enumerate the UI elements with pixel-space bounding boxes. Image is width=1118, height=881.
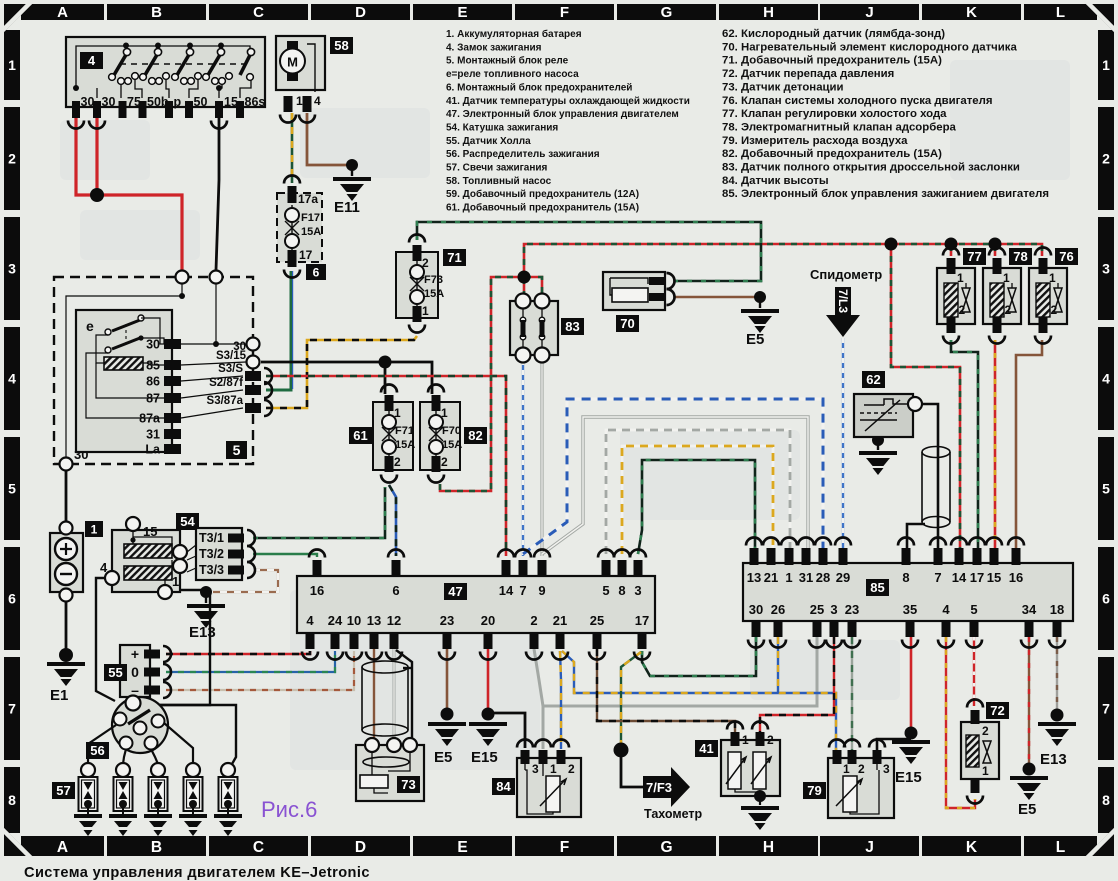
svg-text:J: J bbox=[865, 4, 873, 21]
svg-text:83: 83 bbox=[565, 319, 579, 334]
svg-text:55: 55 bbox=[108, 665, 122, 680]
wire brown fuel pump to E11 bbox=[307, 113, 348, 165]
svg-text:15A: 15A bbox=[442, 439, 462, 451]
svg-text:56: 56 bbox=[90, 743, 104, 758]
svg-text:55. Датчик Холла: 55. Датчик Холла bbox=[446, 136, 531, 147]
svg-text:La: La bbox=[145, 443, 161, 457]
speedometer arrow 7/L3 bbox=[810, 267, 882, 337]
svg-text:8: 8 bbox=[902, 570, 909, 585]
svg-text:41. Датчик температуры охлажда: 41. Датчик температуры охлаждающей жидко… bbox=[446, 96, 690, 107]
svg-text:61: 61 bbox=[353, 428, 367, 443]
svg-text:3: 3 bbox=[883, 762, 890, 776]
svg-text:Рис.6: Рис.6 bbox=[261, 797, 317, 822]
battery 1 bbox=[50, 521, 103, 602]
coolant temp sensor 41 bbox=[695, 722, 780, 831]
svg-text:3: 3 bbox=[830, 602, 837, 617]
wire red battery feed 30 bbox=[76, 113, 94, 195]
svg-text:82: 82 bbox=[468, 428, 482, 443]
wire black shield to 85 pin8 bbox=[907, 524, 925, 551]
fuse 82 (F70) bbox=[420, 385, 487, 483]
svg-text:L: L bbox=[1056, 839, 1065, 856]
bridge yellow dashed 47 pin8 to 85 pin21 bbox=[622, 446, 773, 554]
svg-text:18: 18 bbox=[1050, 602, 1064, 617]
wire battery to relay 30 bbox=[65, 471, 68, 527]
svg-text:E: E bbox=[457, 4, 467, 21]
svg-text:85. Электронный блок управлени: 85. Электронный блок управления зажигани… bbox=[722, 188, 1049, 200]
wire green/blue fuse6 to S2/87f bbox=[266, 271, 291, 390]
svg-text:6: 6 bbox=[313, 265, 320, 279]
svg-text:85: 85 bbox=[146, 359, 160, 373]
wire blue/yellow 85 pin26 to 79 pin1 bbox=[562, 651, 836, 750]
svg-text:4: 4 bbox=[942, 602, 950, 617]
fuel pump 58 bbox=[276, 36, 353, 123]
svg-text:S3/15: S3/15 bbox=[216, 350, 247, 362]
valve 76 bbox=[1029, 248, 1078, 344]
wire red 47 pin20 to E15 bbox=[487, 649, 490, 709]
svg-text:2: 2 bbox=[767, 733, 774, 747]
svg-text:17: 17 bbox=[970, 570, 984, 585]
svg-text:24: 24 bbox=[328, 613, 343, 628]
svg-text:2: 2 bbox=[530, 613, 537, 628]
svg-text:17a: 17a bbox=[298, 192, 318, 206]
svg-text:4: 4 bbox=[314, 94, 321, 108]
svg-text:3: 3 bbox=[532, 762, 539, 776]
svg-text:15: 15 bbox=[143, 524, 157, 539]
svg-text:62: 62 bbox=[866, 372, 880, 387]
hall sender 55 bbox=[104, 645, 171, 698]
lambda shield cylinder bbox=[922, 447, 950, 528]
svg-text:72: 72 bbox=[990, 703, 1004, 718]
ground E5 top bbox=[754, 291, 766, 303]
svg-text:28: 28 bbox=[816, 570, 830, 585]
svg-text:71: 71 bbox=[447, 250, 461, 265]
svg-text:58. Топливный насос: 58. Топливный насос bbox=[446, 176, 552, 187]
svg-text:1: 1 bbox=[1102, 57, 1110, 73]
svg-text:4. Замок зажигания: 4. Замок зажигания bbox=[446, 42, 542, 53]
svg-text:S2/87f: S2/87f bbox=[209, 377, 243, 389]
svg-text:2: 2 bbox=[441, 455, 448, 469]
wire red/yellow 85 pin4 to 72 pin1 bbox=[946, 637, 975, 808]
svg-text:15A: 15A bbox=[395, 439, 415, 451]
svg-text:8: 8 bbox=[1102, 792, 1110, 808]
svg-text:79: 79 bbox=[807, 783, 821, 798]
svg-text:F70: F70 bbox=[442, 425, 461, 437]
svg-text:E13: E13 bbox=[189, 624, 216, 641]
wire red/green fuse 82 to bus and valves bbox=[440, 277, 524, 491]
svg-text:p: p bbox=[174, 95, 182, 109]
ignition switch 4 bbox=[66, 37, 265, 129]
wire black ign 15 to relay block bbox=[216, 117, 219, 270]
svg-text:54. Катушка зажигания: 54. Катушка зажигания bbox=[446, 122, 558, 133]
svg-text:1. Аккумуляторная батарея: 1. Аккумуляторная батарея bbox=[446, 28, 582, 40]
svg-text:6: 6 bbox=[8, 591, 16, 607]
svg-text:1: 1 bbox=[91, 522, 98, 536]
svg-text:F71: F71 bbox=[395, 425, 414, 437]
svg-text:31: 31 bbox=[799, 570, 813, 585]
svg-text:2: 2 bbox=[8, 151, 16, 167]
wire blue/yellow 47 pin21 to 84 pin2 bbox=[560, 651, 561, 749]
svg-text:A: A bbox=[57, 839, 68, 856]
connector T3 bbox=[187, 528, 255, 580]
svg-text:15A: 15A bbox=[301, 226, 321, 238]
svg-text:73: 73 bbox=[401, 777, 415, 792]
svg-text:86: 86 bbox=[146, 375, 160, 389]
lambda sensor 62 bbox=[854, 371, 922, 437]
svg-text:T3/1: T3/1 bbox=[199, 531, 224, 545]
svg-text:1: 1 bbox=[785, 570, 792, 585]
wire black shield knock bbox=[396, 650, 412, 740]
svg-text:16: 16 bbox=[1009, 570, 1023, 585]
svg-text:6. Монтажный блок предохраните: 6. Монтажный блок предохранителей bbox=[446, 81, 632, 93]
svg-text:41: 41 bbox=[699, 741, 713, 756]
svg-text:E5: E5 bbox=[1018, 801, 1036, 818]
svg-text:13: 13 bbox=[367, 613, 381, 628]
svg-text:H: H bbox=[763, 839, 774, 856]
ECU 85 bbox=[743, 538, 1073, 648]
fuse 61 (F71) bbox=[349, 385, 415, 483]
wire gray 83 to 47 pin9 bbox=[540, 360, 543, 556]
svg-text:30: 30 bbox=[749, 602, 763, 617]
svg-text:1: 1 bbox=[296, 94, 303, 108]
branch to 83 contacts bbox=[523, 277, 526, 298]
svg-text:73. Датчик детонации: 73. Датчик детонации bbox=[722, 81, 844, 93]
ECU 47 bbox=[297, 550, 655, 660]
svg-text:1: 1 bbox=[172, 574, 179, 589]
svg-text:35: 35 bbox=[903, 602, 917, 617]
svg-text:+: + bbox=[131, 646, 139, 662]
svg-text:25: 25 bbox=[810, 602, 824, 617]
svg-text:5. Монтажный блок реле: 5. Монтажный блок реле bbox=[446, 55, 569, 67]
svg-text:2: 2 bbox=[568, 762, 575, 776]
svg-text:70. Нагревательный элемент кис: 70. Нагревательный элемент кислородного … bbox=[722, 41, 1017, 53]
altitude sensor 84 bbox=[492, 740, 581, 818]
wire black to tachometer arrow bbox=[621, 750, 643, 787]
svg-text:16: 16 bbox=[310, 583, 324, 598]
wire red/yellow valve 78 to 85 pin15 bbox=[994, 340, 997, 551]
svg-text:T3/2: T3/2 bbox=[199, 547, 224, 561]
svg-text:S3/87a: S3/87a bbox=[207, 395, 244, 407]
wire yellow/black S3/87a to fuse 71 bbox=[266, 336, 417, 408]
svg-text:2: 2 bbox=[1102, 151, 1110, 167]
wire black/green 85 pin30 to 47 pin17 bbox=[642, 637, 756, 676]
wire brown/red hall- to 47 pin10 bbox=[166, 651, 354, 690]
svg-text:58: 58 bbox=[334, 38, 348, 53]
svg-text:13: 13 bbox=[747, 570, 761, 585]
wire blue/black fuse 61 to 47 pin6 bbox=[389, 485, 396, 556]
wire distributor to plug5 bbox=[141, 705, 236, 764]
svg-text:J: J bbox=[865, 839, 874, 856]
svg-text:3: 3 bbox=[634, 583, 641, 598]
svg-text:e: e bbox=[86, 318, 94, 334]
svg-text:F73: F73 bbox=[424, 274, 443, 286]
svg-text:4: 4 bbox=[88, 53, 96, 68]
svg-text:20: 20 bbox=[481, 613, 495, 628]
svg-text:5: 5 bbox=[602, 583, 609, 598]
wire brown/black 47 pin25 to 41 pin1 bbox=[597, 649, 735, 737]
wire brown/red 85 pin34 to E5 bbox=[1028, 637, 1030, 764]
svg-text:8: 8 bbox=[618, 583, 625, 598]
wire black E15 to 79 pin3 bbox=[877, 739, 911, 750]
knock shield cylinder bbox=[362, 661, 408, 736]
ground E11 bbox=[346, 159, 358, 171]
svg-text:4: 4 bbox=[100, 560, 108, 575]
svg-text:7: 7 bbox=[934, 570, 941, 585]
ignition coil 54 bbox=[100, 513, 199, 599]
wire brown 47 pin13 to knock 73 bbox=[373, 649, 375, 740]
svg-text:7: 7 bbox=[519, 583, 526, 598]
bridge blue dashed 47 pin7 to 85 pin28 bbox=[523, 399, 823, 554]
svg-text:83. Датчик полного открытия др: 83. Датчик полного открытия дроссельной … bbox=[722, 162, 1020, 174]
wire green/gray 85 pin23 to 79 pin2 bbox=[851, 637, 853, 750]
svg-text:6: 6 bbox=[392, 583, 399, 598]
svg-text:78: 78 bbox=[1013, 249, 1027, 264]
svg-text:E5: E5 bbox=[746, 331, 764, 348]
svg-text:4: 4 bbox=[306, 613, 314, 628]
svg-text:7/F3: 7/F3 bbox=[646, 780, 672, 795]
pressure diff sensor 72 bbox=[961, 700, 1009, 804]
svg-text:L: L bbox=[1056, 4, 1065, 21]
svg-text:3: 3 bbox=[1102, 261, 1110, 277]
svg-text:71. Добавочный предохранитель: 71. Добавочный предохранитель (15А) bbox=[722, 55, 942, 67]
svg-text:1: 1 bbox=[742, 733, 749, 747]
svg-text:15: 15 bbox=[224, 95, 238, 109]
wire brown 47 pin23 to E5 bbox=[446, 649, 449, 709]
svg-text:17: 17 bbox=[635, 613, 649, 628]
svg-text:E5: E5 bbox=[434, 749, 452, 766]
svg-text:7/L3: 7/L3 bbox=[836, 289, 850, 313]
svg-text:85: 85 bbox=[870, 580, 884, 595]
wire red/black hall+ to 47 pin4 bbox=[166, 651, 310, 654]
wire coil circle4 to distributor bbox=[96, 578, 115, 701]
svg-text:K: K bbox=[966, 4, 977, 21]
svg-text:79. Измеритель расхода воздуха: 79. Измеритель расхода воздуха bbox=[722, 135, 908, 147]
wire black/green valve 77 to 85 pin17 bbox=[951, 340, 978, 551]
svg-text:2: 2 bbox=[394, 455, 401, 469]
svg-text:2: 2 bbox=[1051, 303, 1058, 317]
svg-text:47. Электронный блок управлени: 47. Электронный блок управления двигател… bbox=[446, 108, 679, 120]
svg-text:1: 1 bbox=[843, 762, 850, 776]
svg-text:7: 7 bbox=[1102, 701, 1110, 717]
svg-text:F17: F17 bbox=[301, 212, 320, 224]
svg-text:25: 25 bbox=[590, 613, 604, 628]
svg-text:4: 4 bbox=[1102, 371, 1110, 387]
svg-text:2: 2 bbox=[1005, 303, 1012, 317]
wire green/yellow fuel pump to fuse 6 bbox=[291, 113, 294, 183]
svg-text:47: 47 bbox=[448, 584, 462, 599]
wire black E15 to 84 pin3 bbox=[490, 713, 525, 748]
svg-text:G: G bbox=[660, 839, 672, 856]
svg-text:77. Клапан регулировки холосто: 77. Клапан регулировки холостого хода bbox=[722, 108, 947, 120]
svg-text:84: 84 bbox=[496, 779, 511, 794]
svg-text:77: 77 bbox=[967, 249, 981, 264]
wire black lambda 62 to 85 pin7 bbox=[920, 404, 938, 551]
svg-text:6: 6 bbox=[1102, 591, 1110, 607]
svg-text:е=реле топливного насоса: е=реле топливного насоса bbox=[446, 69, 579, 80]
wire gray/brown 85 pin18 to E13 bbox=[1056, 637, 1058, 710]
svg-text:7: 7 bbox=[8, 701, 16, 717]
svg-text:30: 30 bbox=[102, 95, 116, 109]
svg-text:26: 26 bbox=[771, 602, 785, 617]
wire red 30 to relay bbox=[95, 113, 98, 195]
svg-text:K: K bbox=[966, 839, 978, 856]
svg-text:21: 21 bbox=[764, 570, 778, 585]
wire green T3/2 to 47 pin16 bbox=[253, 554, 317, 557]
svg-text:1: 1 bbox=[982, 764, 989, 778]
junction bbox=[90, 188, 104, 202]
svg-text:86s: 86s bbox=[245, 95, 266, 109]
svg-text:31: 31 bbox=[146, 428, 160, 442]
svg-text:87a: 87a bbox=[139, 412, 161, 426]
svg-text:59. Добавочный предохранитель: 59. Добавочный предохранитель (12А) bbox=[446, 188, 639, 200]
wire brown valve 76 to 85 pin16 bbox=[1016, 340, 1042, 551]
svg-text:C: C bbox=[253, 4, 264, 21]
svg-text:23: 23 bbox=[845, 602, 859, 617]
wire blue/white speedometer to 85 pin29 bbox=[842, 338, 844, 551]
wire brown heater 70 to E5 bbox=[674, 296, 755, 299]
ground 62 bbox=[872, 434, 884, 446]
svg-text:E13: E13 bbox=[1040, 751, 1067, 768]
svg-text:F: F bbox=[560, 4, 569, 21]
wire red/white 85 pin5 to 72 pin2 bbox=[973, 637, 975, 706]
bus junctions bbox=[891, 244, 960, 551]
wire gray 47 pin12 to knock 73 bbox=[393, 649, 396, 740]
svg-text:2: 2 bbox=[959, 303, 966, 317]
svg-text:5: 5 bbox=[970, 602, 977, 617]
svg-text:17: 17 bbox=[299, 248, 313, 262]
wire green/yellow 47 pin17 to tach junction bbox=[621, 652, 641, 744]
spark plugs 57 bbox=[52, 723, 242, 836]
throttle switch 83 bbox=[510, 294, 584, 363]
wire battery to E1 bbox=[65, 597, 68, 650]
valve 77 bbox=[937, 248, 986, 344]
svg-text:Тахометр: Тахометр bbox=[644, 807, 703, 821]
svg-text:1: 1 bbox=[422, 304, 429, 318]
wire black S3/15 bus to fuses 61 82 bbox=[261, 362, 432, 394]
wire red/black 85 pin3 to 41 pin2 bbox=[760, 637, 834, 737]
valve 78 bbox=[983, 248, 1032, 344]
svg-text:E15: E15 bbox=[471, 749, 498, 766]
bridge gray dashed 47 pin5 to 85 pin1 bbox=[606, 430, 790, 554]
svg-text:T3/3: T3/3 bbox=[199, 563, 224, 577]
svg-text:A: A bbox=[57, 4, 68, 21]
svg-text:61. Добавочный предохранитель: 61. Добавочный предохранитель (15А) bbox=[446, 202, 639, 214]
svg-text:76. Клапан системы холодного п: 76. Клапан системы холодного пуска двига… bbox=[722, 95, 993, 107]
svg-text:Спидометр: Спидометр bbox=[810, 267, 882, 282]
svg-text:2: 2 bbox=[982, 724, 989, 738]
svg-text:57: 57 bbox=[56, 783, 70, 798]
wire coil circle1 to distributor top bbox=[142, 590, 210, 705]
svg-text:F: F bbox=[560, 839, 569, 856]
svg-text:0: 0 bbox=[131, 664, 139, 680]
svg-text:E15: E15 bbox=[895, 769, 922, 786]
knock sensor 73 bbox=[356, 738, 424, 801]
wire gray 47 pin2 to 84 pin1 bbox=[534, 649, 543, 749]
svg-text:87: 87 bbox=[146, 392, 160, 406]
wire red/green S3/S to 47 pin14 bbox=[266, 376, 506, 556]
svg-text:S3/S: S3/S bbox=[218, 363, 243, 375]
air flow meter 79 bbox=[803, 740, 894, 819]
svg-text:M: M bbox=[287, 55, 298, 70]
svg-text:Система управления двигателем: Система управления двигателем KE–Jetroni… bbox=[24, 865, 370, 881]
distributor 56 bbox=[86, 696, 168, 760]
wire green/blue hall0 to 47 pin24 bbox=[166, 651, 335, 672]
svg-text:3: 3 bbox=[8, 261, 16, 277]
svg-text:C: C bbox=[253, 839, 264, 856]
svg-text:2: 2 bbox=[858, 762, 865, 776]
svg-text:G: G bbox=[661, 4, 673, 21]
tachometer arrow 7/F3 bbox=[643, 767, 690, 807]
svg-text:10: 10 bbox=[347, 613, 361, 628]
svg-text:5: 5 bbox=[8, 481, 16, 497]
svg-text:78. Электромагнитный клапан ад: 78. Электромагнитный клапан адсорбера bbox=[722, 121, 957, 133]
wire brown/white T3/3 to E13 bbox=[211, 570, 278, 592]
wire black/green T3/1 to fuse 61 bbox=[253, 487, 385, 538]
svg-text:1: 1 bbox=[8, 57, 16, 73]
svg-text:B: B bbox=[151, 4, 162, 21]
svg-text:D: D bbox=[355, 839, 366, 856]
wire blue/white 83 to 47 pin7 bbox=[522, 360, 524, 556]
svg-text:8: 8 bbox=[8, 792, 16, 808]
legend text bbox=[446, 28, 1049, 214]
svg-text:70: 70 bbox=[620, 316, 634, 331]
svg-text:5: 5 bbox=[1102, 481, 1110, 497]
fuse block 6 (F17) bbox=[277, 176, 326, 281]
svg-text:57. Свечи зажигания: 57. Свечи зажигания bbox=[446, 163, 548, 174]
svg-text:30: 30 bbox=[81, 95, 95, 109]
svg-text:14: 14 bbox=[499, 583, 514, 598]
svg-text:23: 23 bbox=[440, 613, 454, 628]
svg-text:D: D bbox=[355, 4, 366, 21]
ground E13 coil bbox=[200, 586, 212, 598]
svg-text:84. Датчик высоты: 84. Датчик высоты bbox=[722, 175, 829, 187]
svg-text:29: 29 bbox=[836, 570, 850, 585]
wire red 85 pin35 to E15 bbox=[910, 637, 913, 728]
wire gray 85 pin25 joins bbox=[542, 637, 817, 706]
svg-text:15A: 15A bbox=[424, 288, 444, 300]
svg-text:50: 50 bbox=[194, 95, 208, 109]
svg-text:B: B bbox=[151, 839, 162, 856]
svg-text:30: 30 bbox=[146, 338, 160, 352]
svg-text:14: 14 bbox=[952, 570, 967, 585]
svg-text:54: 54 bbox=[180, 514, 195, 529]
svg-text:12: 12 bbox=[387, 613, 401, 628]
svg-text:E1: E1 bbox=[50, 687, 68, 704]
svg-text:H: H bbox=[763, 4, 774, 21]
relay block 5 bbox=[54, 271, 272, 471]
svg-text:9: 9 bbox=[538, 583, 545, 598]
svg-text:5: 5 bbox=[233, 442, 241, 458]
svg-text:15: 15 bbox=[987, 570, 1001, 585]
svg-text:62. Кислородный датчик (лямбда: 62. Кислородный датчик (лямбда-зонд) bbox=[722, 28, 945, 40]
svg-text:1: 1 bbox=[550, 762, 557, 776]
fuse 71 (F73) bbox=[396, 235, 466, 333]
svg-text:4: 4 bbox=[8, 371, 16, 387]
bridge thin gray 47 pin9 to 85 pin31 bbox=[542, 417, 808, 554]
svg-text:E: E bbox=[457, 839, 467, 856]
lambda heater 70 bbox=[603, 272, 675, 332]
svg-text:72. Датчик перепада давления: 72. Датчик перепада давления bbox=[722, 68, 894, 80]
svg-text:E11: E11 bbox=[334, 199, 360, 216]
wire black/green fuse 71 to heater 70 bbox=[417, 222, 761, 281]
svg-text:34: 34 bbox=[1022, 602, 1037, 617]
bridge black/green 47 pin3 to 85 pin13 bbox=[638, 460, 755, 554]
svg-text:76: 76 bbox=[1059, 249, 1073, 264]
svg-text:56. Распределитель зажигания: 56. Распределитель зажигания bbox=[446, 149, 600, 160]
svg-text:82. Добавочный предохранитель: 82. Добавочный предохранитель (15А) bbox=[722, 148, 942, 160]
svg-text:21: 21 bbox=[553, 613, 567, 628]
